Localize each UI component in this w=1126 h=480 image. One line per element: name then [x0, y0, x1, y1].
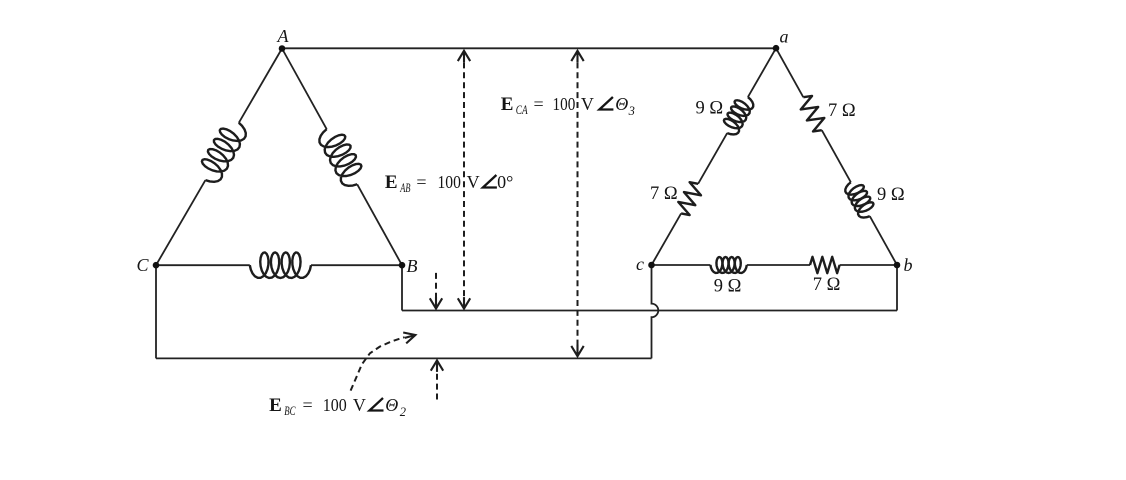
svg-text:9 Ω: 9 Ω	[714, 277, 742, 297]
wire bottom bus C-c (level 2)	[156, 357, 652, 359]
node a	[773, 45, 780, 52]
svg-text:2: 2	[400, 405, 406, 419]
inductor 9 ohm (a-b side)	[845, 182, 873, 217]
wire c to load coil (c-b side)	[652, 264, 711, 266]
svg-text:=: =	[534, 94, 544, 114]
svg-text:100: 100	[323, 395, 347, 415]
wire source coil to B	[357, 184, 402, 265]
node b	[894, 262, 901, 269]
svg-text:9 Ω: 9 Ω	[877, 185, 905, 205]
svg-text:3: 3	[628, 104, 635, 118]
svg-text:BC: BC	[284, 404, 296, 418]
wire source coil to B (bottom)	[311, 264, 402, 266]
inductor 9 ohm (a-c side)	[724, 97, 753, 134]
resistor 7 ohm (a-b side)	[801, 96, 825, 132]
svg-text:100: 100	[438, 172, 461, 192]
arrow short up head	[431, 360, 443, 370]
svg-text:AB: AB	[400, 181, 411, 195]
node A	[279, 45, 286, 52]
wire A to source coil (A-B side)	[282, 49, 327, 130]
svg-text:a: a	[780, 27, 789, 47]
resistor 7 ohm (c-b bottom)	[810, 257, 840, 273]
wire a to load coil (a-c side)	[748, 48, 776, 97]
inductor source winding CA	[202, 123, 246, 182]
arrow E_AB dashed shaft	[463, 53, 465, 307]
wire resistor to c	[652, 213, 682, 265]
inductor 9 ohm (c-b bottom)	[710, 257, 746, 273]
svg-text:V: V	[467, 172, 480, 192]
node c	[648, 262, 655, 269]
arrow E_BC curved head	[403, 333, 415, 344]
arrow E_CA dashed shaft	[577, 53, 579, 355]
svg-text:CA: CA	[516, 103, 528, 117]
node B	[399, 262, 406, 269]
arrow E_CA head down	[571, 346, 583, 356]
wire B down	[401, 265, 403, 310]
svg-text:b: b	[904, 255, 913, 275]
wire between resistor and coil (a-b side)	[822, 130, 851, 182]
wire top bus A-a	[282, 47, 776, 49]
node C	[153, 262, 160, 269]
arrow E_AB head down	[458, 298, 470, 308]
svg-text:=: =	[416, 172, 426, 192]
wire coil to b	[870, 216, 897, 265]
svg-text:V: V	[581, 94, 594, 114]
wire A to source coil (A-C side)	[239, 49, 282, 123]
arrow short up at bottom dashed shaft	[436, 363, 438, 400]
wire a to load resistor (a-b side)	[776, 48, 803, 97]
arrow short down head	[430, 298, 442, 308]
wire b down	[896, 265, 898, 311]
arrow E_CA head up	[571, 51, 583, 61]
svg-text:7 Ω: 7 Ω	[813, 275, 841, 295]
svg-text:9 Ω: 9 Ω	[696, 99, 724, 119]
label E_AB angle symbol	[483, 175, 497, 188]
wire c down with crossover hop	[652, 265, 659, 358]
svg-text:7 Ω: 7 Ω	[828, 101, 856, 121]
arrow short down at B dashed shaft	[435, 273, 437, 307]
svg-text:0°: 0°	[497, 172, 513, 192]
label E_BC angle symbol	[370, 398, 384, 411]
wire C to source coil (C-B side)	[156, 264, 250, 266]
svg-text:100: 100	[553, 94, 576, 114]
wire C down	[155, 265, 157, 358]
svg-text:7 Ω: 7 Ω	[650, 184, 678, 204]
svg-text:V: V	[353, 395, 366, 415]
wire source coil to C	[156, 180, 205, 265]
arrow E_BC curved dashed shaft	[351, 337, 405, 390]
wire between coil and resistor (bottom)	[747, 264, 810, 266]
svg-text:c: c	[636, 254, 644, 274]
svg-text:Θ: Θ	[615, 94, 628, 114]
svg-text:Θ: Θ	[385, 395, 398, 415]
inductor source winding BC	[250, 252, 311, 278]
svg-text:E: E	[501, 94, 514, 115]
svg-text:E: E	[385, 172, 398, 193]
svg-text:A: A	[277, 26, 290, 46]
inductor source winding AB	[319, 129, 361, 186]
resistor 7 ohm (a-c side)	[678, 182, 701, 215]
svg-text:=: =	[303, 395, 313, 415]
svg-text:E: E	[269, 395, 282, 416]
svg-text:C: C	[136, 255, 149, 275]
wire resistor to b (bottom)	[840, 264, 897, 266]
wire between coil and resistor (a-c side)	[698, 133, 727, 184]
label E_CA angle symbol	[599, 97, 613, 110]
svg-text:B: B	[407, 256, 418, 276]
wire bottom bus B-b (level 1)	[402, 310, 897, 312]
arrow E_AB head up	[458, 51, 470, 61]
